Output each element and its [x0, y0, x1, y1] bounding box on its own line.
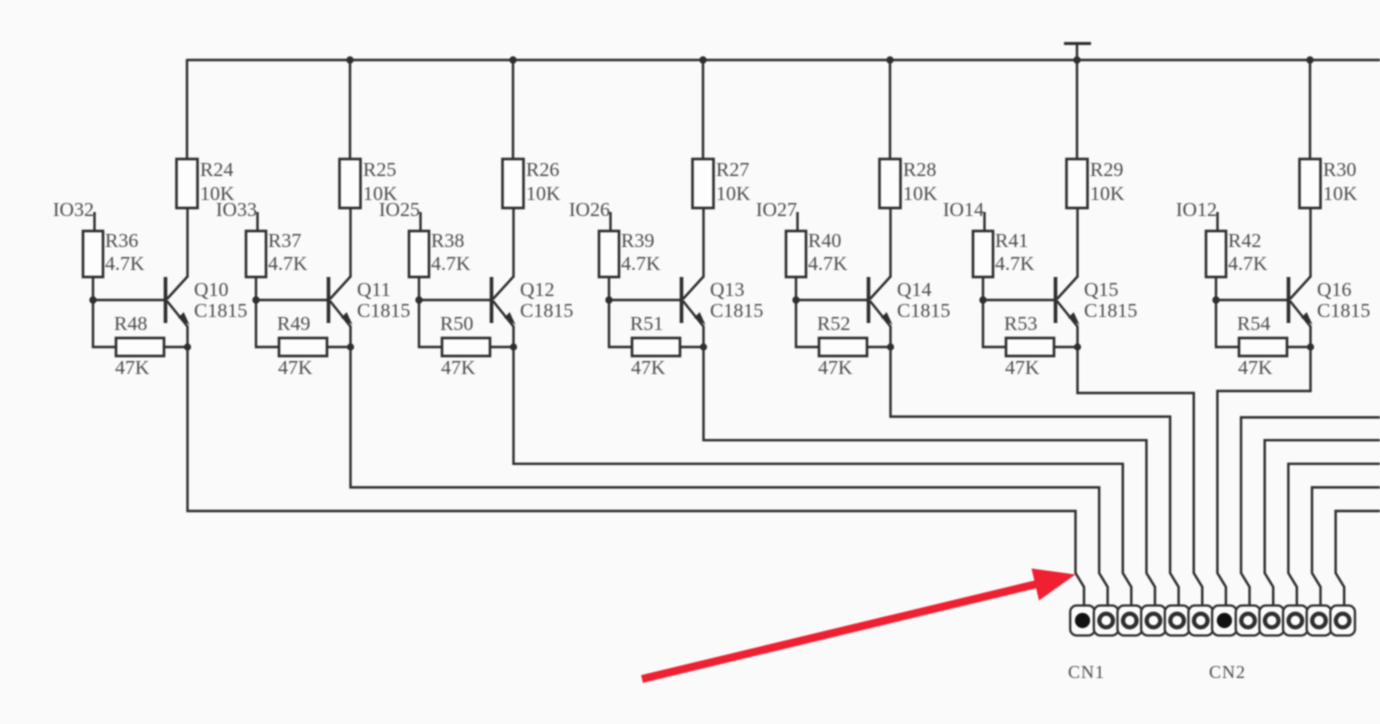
wire from right edge to connector pin 11	[1312, 487, 1380, 606]
svg-text:47K: 47K	[1238, 357, 1273, 379]
svg-text:C1815: C1815	[194, 300, 247, 322]
wire rail to R25	[349, 60, 351, 159]
wire Q13 emitter to connector pin 4	[704, 347, 1155, 606]
wire Q16 emitter down	[1309, 326, 1311, 347]
wire R48 to emitter node	[164, 346, 187, 348]
svg-text:4.7K: 4.7K	[105, 253, 145, 275]
node emitter junction of Q13	[700, 343, 707, 350]
svg-text:47K: 47K	[278, 357, 313, 379]
wire Q15 emitter down	[1076, 326, 1078, 347]
wire base node to R50	[419, 300, 442, 347]
resistor R54	[1239, 338, 1287, 356]
svg-text:R36: R36	[105, 230, 138, 252]
wire VCC rail	[187, 59, 1380, 62]
wire Q10 emitter down	[186, 326, 188, 347]
node rail junction R25	[346, 56, 353, 63]
wire R30 to Q16 collector	[1309, 208, 1311, 278]
svg-text:R29: R29	[1090, 159, 1123, 181]
connector CN1 pin 6	[1188, 606, 1213, 636]
svg-text:4.7K: 4.7K	[268, 253, 308, 275]
svg-text:C1815: C1815	[710, 300, 763, 322]
svg-text:4.7K: 4.7K	[621, 253, 661, 275]
wire Q11 emitter down	[349, 326, 351, 347]
wire Q12 emitter down	[512, 326, 514, 347]
resistor R38	[409, 231, 429, 277]
svg-text:CN2: CN2	[1209, 662, 1246, 682]
svg-text:Q13: Q13	[710, 279, 744, 301]
resistor R26	[503, 159, 524, 208]
connector CN2 pin 5	[1307, 606, 1332, 636]
node emitter junction of Q11	[347, 343, 354, 350]
node base junction of Q14	[792, 296, 799, 303]
svg-text:Q14: Q14	[897, 279, 931, 301]
resistor R53	[1006, 338, 1054, 356]
resistor R36	[83, 231, 103, 277]
wire Q13 emitter down	[702, 326, 704, 347]
svg-text:R26: R26	[526, 159, 559, 181]
wire R27 to Q13 collector	[702, 208, 704, 278]
wire base node to R48	[93, 300, 116, 347]
wire Q16 emitter to connector pin 7	[1217, 347, 1310, 606]
svg-text:47K: 47K	[818, 357, 853, 379]
resistor R27	[693, 159, 714, 208]
resistor R48	[116, 338, 164, 356]
wire R42 to base node	[1215, 277, 1217, 300]
wire base node to R49	[256, 300, 279, 347]
wire R54 to emitter node	[1287, 346, 1310, 348]
svg-text:R37: R37	[268, 230, 301, 252]
svg-text:C1815: C1815	[897, 300, 950, 322]
svg-text:R41: R41	[995, 230, 1028, 252]
svg-text:4.7K: 4.7K	[1228, 253, 1268, 275]
svg-text:IO14: IO14	[943, 199, 984, 221]
svg-text:R25: R25	[363, 159, 396, 181]
svg-text:C1815: C1815	[520, 300, 573, 322]
node base junction of Q10	[89, 296, 96, 303]
wire Q12 emitter to connector pin 3	[514, 347, 1132, 606]
node rail junction R28	[886, 56, 893, 63]
resistor R25	[340, 159, 361, 208]
wire base node to R53	[983, 300, 1006, 347]
transistor Q11	[329, 277, 353, 327]
svg-text:IO32: IO32	[53, 199, 94, 221]
wire R51 to emitter node	[680, 346, 703, 348]
svg-text:R50: R50	[440, 313, 473, 335]
svg-text:C1815: C1815	[357, 300, 410, 322]
wire rail to R30	[1309, 60, 1311, 159]
transistor Q10	[166, 277, 190, 327]
resistor R41	[973, 231, 993, 277]
svg-text:IO33: IO33	[216, 199, 257, 221]
svg-text:C1815: C1815	[1317, 300, 1370, 322]
svg-text:C1815: C1815	[1084, 300, 1137, 322]
svg-text:10K: 10K	[1090, 183, 1125, 205]
wire base node to Q13 base	[609, 299, 682, 301]
resistor R50	[442, 338, 490, 356]
wire IO26 to R39	[609, 212, 611, 231]
connector CN2 pin 3	[1259, 606, 1284, 636]
wire base node to Q16 base	[1216, 299, 1289, 301]
wire IO14 to R41	[983, 212, 985, 231]
connector CN1 pin 3	[1118, 606, 1143, 636]
svg-text:4.7K: 4.7K	[995, 253, 1035, 275]
svg-text:R49: R49	[277, 313, 310, 335]
node emitter junction of Q14	[887, 343, 894, 350]
transistor Q16	[1289, 277, 1313, 327]
svg-text:R42: R42	[1228, 230, 1261, 252]
svg-text:CN1: CN1	[1068, 662, 1105, 682]
svg-text:R51: R51	[630, 313, 663, 335]
node emitter junction of Q10	[184, 343, 191, 350]
svg-text:R52: R52	[817, 313, 850, 335]
resistor R30	[1300, 159, 1321, 208]
node base junction of Q16	[1212, 296, 1219, 303]
svg-text:10K: 10K	[716, 183, 751, 205]
connector CN1 pin 2	[1094, 606, 1119, 636]
svg-text:R30: R30	[1323, 159, 1356, 181]
resistor R24	[177, 159, 198, 208]
svg-text:47K: 47K	[115, 357, 150, 379]
svg-text:R54: R54	[1237, 313, 1270, 335]
wire IO12 to R42	[1216, 212, 1218, 231]
node rail junction R30	[1306, 56, 1313, 63]
connector CN1 pin 1	[1070, 606, 1095, 636]
wire R49 to emitter node	[327, 346, 350, 348]
wire R37 to base node	[255, 277, 257, 300]
wire R36 to base node	[92, 277, 94, 300]
node rail junction R29	[1073, 56, 1080, 63]
node rail junction R27	[699, 56, 706, 63]
wire from right edge to connector pin 9	[1265, 440, 1380, 606]
connector CN2 pin 6	[1330, 606, 1355, 636]
wire from right edge to connector pin 12	[1336, 511, 1380, 606]
wire R38 to base node	[418, 277, 420, 300]
wire IO25 to R38	[419, 212, 421, 231]
svg-text:Q16: Q16	[1317, 279, 1351, 301]
connector CN1 pin 5	[1165, 606, 1190, 636]
resistor R49	[279, 338, 327, 356]
node rail junction R26	[509, 56, 516, 63]
node base junction of Q11	[252, 296, 259, 303]
wire base node to Q11 base	[256, 299, 329, 301]
connector CN2 pin 2	[1236, 606, 1261, 636]
svg-text:47K: 47K	[441, 357, 476, 379]
wire base node to R52	[796, 300, 819, 347]
wire rail to R28	[889, 60, 891, 159]
wire base node to R51	[609, 300, 632, 347]
svg-text:R38: R38	[431, 230, 464, 252]
wire Q11 emitter to connector pin 2	[351, 347, 1108, 606]
wire Q10 emitter to connector pin 1	[188, 347, 1085, 606]
wire base node to R54	[1216, 300, 1239, 347]
svg-text:R28: R28	[903, 159, 936, 181]
svg-text:Q15: Q15	[1084, 279, 1118, 301]
wire R40 to base node	[795, 277, 797, 300]
svg-text:47K: 47K	[1005, 357, 1040, 379]
wire R39 to base node	[608, 277, 610, 300]
wire base node to Q10 base	[93, 299, 166, 301]
node base junction of Q13	[605, 296, 612, 303]
resistor R40	[786, 231, 806, 277]
wire R25 to Q11 collector	[349, 208, 351, 278]
transistor Q12	[492, 277, 516, 327]
transistor Q14	[869, 277, 893, 327]
wire R50 to emitter node	[490, 346, 513, 348]
node base junction of Q15	[979, 296, 986, 303]
wire IO27 to R40	[796, 212, 798, 231]
wire rail to R27	[702, 60, 704, 159]
wire from right edge to connector pin 10	[1288, 464, 1380, 606]
svg-text:4.7K: 4.7K	[431, 253, 471, 275]
wire rail to R29	[1076, 60, 1078, 159]
wire R26 to Q12 collector	[512, 208, 514, 278]
svg-text:IO27: IO27	[756, 199, 797, 221]
wire R52 to emitter node	[867, 346, 890, 348]
wire R29 to Q15 collector	[1076, 208, 1078, 278]
resistor R39	[599, 231, 619, 277]
wire IO32 to R36	[93, 212, 95, 231]
resistor R51	[632, 338, 680, 356]
svg-text:Q10: Q10	[194, 279, 228, 301]
node emitter junction of Q15	[1074, 343, 1081, 350]
wire IO33 to R37	[256, 212, 258, 231]
wire base node to Q15 base	[983, 299, 1056, 301]
transistor Q15	[1056, 277, 1080, 327]
svg-text:R40: R40	[808, 230, 841, 252]
svg-text:4.7K: 4.7K	[808, 253, 848, 275]
node emitter junction of Q16	[1307, 343, 1314, 350]
wire from right edge to connector pin 8	[1241, 417, 1380, 606]
svg-text:Q12: Q12	[520, 279, 554, 301]
svg-text:IO12: IO12	[1176, 199, 1217, 221]
wire R28 to Q14 collector	[889, 208, 891, 278]
svg-text:10K: 10K	[526, 183, 561, 205]
transistor Q13	[682, 277, 706, 327]
wire Q15 emitter to connector pin 6	[1078, 347, 1203, 606]
wire rail corner to R24	[186, 59, 188, 159]
svg-text:R39: R39	[621, 230, 654, 252]
svg-text:10K: 10K	[1323, 183, 1358, 205]
svg-text:Q11: Q11	[357, 279, 391, 301]
power symbol VCC	[1064, 44, 1091, 61]
resistor R28	[880, 159, 901, 208]
wire R53 to emitter node	[1054, 346, 1077, 348]
svg-text:R48: R48	[114, 313, 147, 335]
svg-text:47K: 47K	[631, 357, 666, 379]
resistor R42	[1206, 231, 1226, 277]
svg-text:IO25: IO25	[379, 199, 420, 221]
wire R41 to base node	[982, 277, 984, 300]
svg-text:10K: 10K	[903, 183, 938, 205]
svg-text:R24: R24	[200, 159, 233, 181]
wire R24 to Q10 collector	[186, 208, 188, 278]
node emitter junction of Q12	[510, 343, 517, 350]
connector CN1 pin 4	[1141, 606, 1166, 636]
svg-text:R27: R27	[716, 159, 749, 181]
wire Q14 emitter down	[889, 326, 891, 347]
svg-text:R53: R53	[1004, 313, 1037, 335]
wire rail to R26	[512, 60, 514, 159]
wire base node to Q14 base	[796, 299, 869, 301]
svg-text:IO26: IO26	[569, 199, 610, 221]
connector CN2 pin 4	[1283, 606, 1308, 636]
resistor R52	[819, 338, 867, 356]
node base junction of Q12	[415, 296, 422, 303]
wire base node to Q12 base	[419, 299, 492, 301]
resistor R29	[1067, 159, 1088, 208]
connector CN2 pin 1	[1212, 606, 1237, 636]
red arrow pointing at CN1 pin 1	[642, 569, 1076, 680]
wire Q14 emitter to connector pin 5	[891, 347, 1179, 606]
resistor R37	[246, 231, 266, 277]
